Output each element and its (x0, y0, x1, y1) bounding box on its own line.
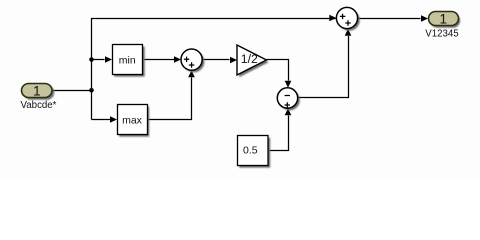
sum S1 plus (left input) (184, 57, 189, 62)
gain 1/2 triangle (237, 45, 267, 75)
arrowhead into sum S1 (bottom) (188, 70, 195, 77)
inport 1 (22, 84, 53, 98)
sum S2 shadow (339, 10, 360, 31)
outport 1 shadow (430, 14, 460, 28)
subtract block shadow (280, 90, 300, 110)
max block shadow (119, 107, 149, 137)
svg-text:Vabcde*: Vabcde* (21, 100, 57, 111)
gain 1/2 shadow (239, 47, 269, 77)
outport 1 (429, 12, 459, 26)
sum S2 (336, 7, 357, 28)
wire: sum S2 out to outport (358, 18, 421, 20)
svg-text:min: min (119, 54, 136, 66)
wire: subtract out right then up into sum S2 bottom (298, 36, 349, 98)
arrowhead into subtract (top) (285, 81, 292, 88)
sum S1 plus (bottom input) (189, 62, 194, 67)
arrowhead into subtract (bottom) (285, 108, 292, 115)
arrowhead into gain (230, 57, 237, 64)
wire: sum S1 out to gain (202, 59, 229, 61)
constant 0.5 block shadow (239, 138, 270, 168)
sum S1 (181, 49, 202, 70)
max block (118, 105, 148, 135)
inport 1 shadow (24, 85, 55, 100)
wire: max out, right then up into sum S1 bottom (147, 78, 192, 120)
wire: inport to junction (52, 90, 92, 92)
arrowhead into sum S2 (left) (329, 15, 336, 22)
wire: min out to sum S1 (143, 59, 175, 61)
sum S1 shadow (183, 51, 204, 72)
svg-text:1: 1 (33, 83, 41, 98)
min block shadow (114, 47, 145, 77)
wire: branch to min (92, 59, 105, 61)
arrowhead into sum S2 (bottom) (345, 29, 352, 36)
sum S2 plus (bottom input) (345, 20, 350, 25)
constant 0.5 block (238, 136, 269, 166)
svg-text:1: 1 (440, 11, 448, 26)
svg-text:V12345: V12345 (425, 29, 458, 40)
node: junction at min branch (89, 57, 94, 62)
wire: gain out right then down into subtract top (267, 60, 289, 81)
arrowhead into outport (421, 15, 428, 22)
svg-text:1/2: 1/2 (241, 52, 258, 66)
svg-text:max: max (122, 114, 143, 126)
node: junction at inport wire (89, 88, 94, 93)
arrowhead into min (105, 56, 112, 63)
svg-text:0.5: 0.5 (243, 145, 258, 157)
wire: constant 0.5 out right then up into subtract bottom (268, 116, 289, 151)
subtract minus (top input) (285, 95, 290, 97)
min block (113, 45, 143, 75)
arrowhead into max (110, 116, 117, 123)
sum S2 plus (left input) (340, 14, 345, 19)
subtract plus (bottom input) (285, 102, 290, 107)
arrowhead into sum S1 (left) (174, 56, 181, 63)
subtract block (277, 88, 297, 108)
wire: branch vertical from inport junction up to top line and down to max (92, 19, 336, 120)
